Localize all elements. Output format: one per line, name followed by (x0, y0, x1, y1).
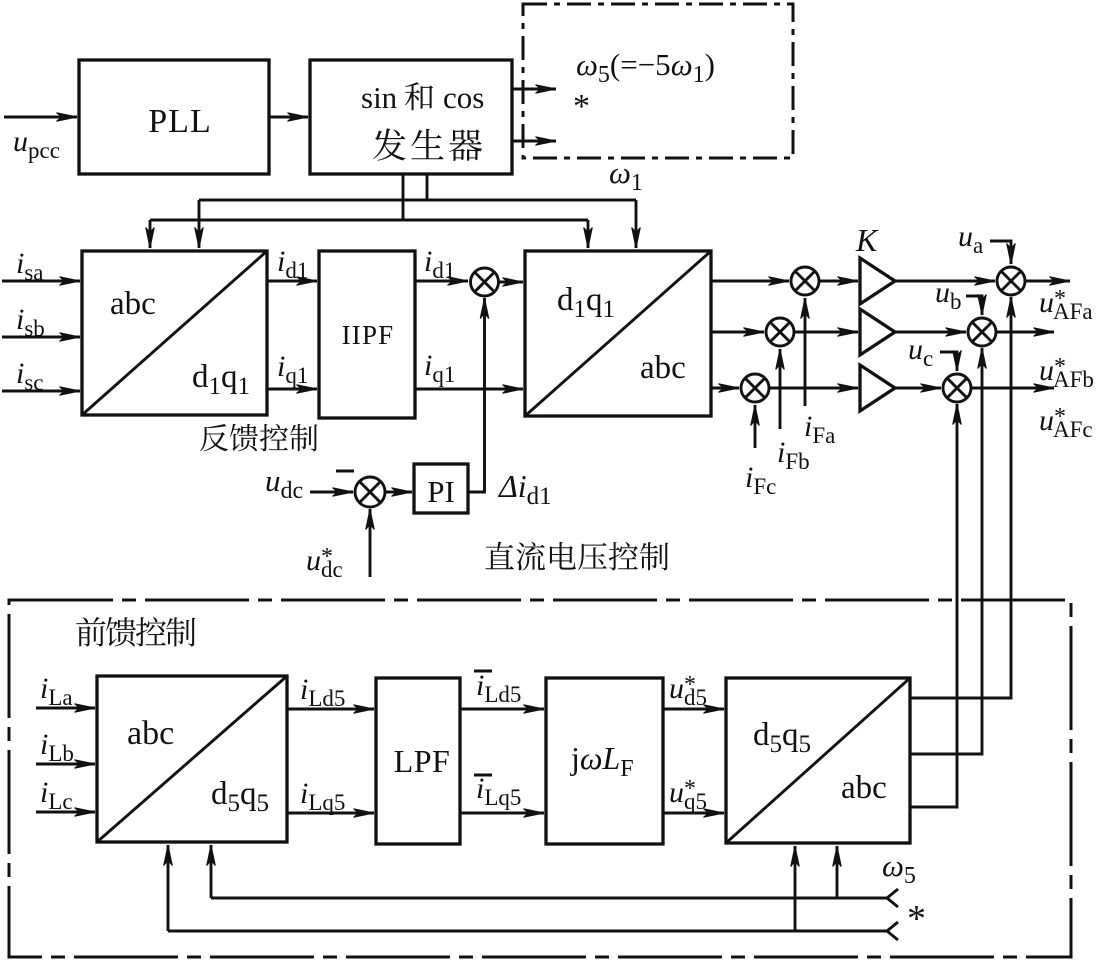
label feedforward control 前馈控制 (76, 617, 195, 646)
block LPF (376, 678, 460, 844)
diagonal abc-d1q1 (82, 251, 267, 415)
wire i_sc input (2, 390, 80, 393)
block abc to d5q5 transform (97, 676, 287, 842)
label feedback control 反馈控制 (200, 424, 317, 452)
block jwL_F (546, 678, 663, 844)
wire row-b to amp K (794, 331, 858, 334)
wire line B down into abc-d1q1 (149, 220, 152, 248)
block d1q1 to abc transform (525, 251, 711, 416)
wire amp to output summer row-a (895, 280, 995, 283)
wire feedforward phase-b up into output summer row-b (910, 348, 982, 754)
svg-text:abc: abc (640, 350, 686, 386)
svg-text:PI: PI (427, 474, 455, 509)
wire i_q1 to d1q1-abc (415, 388, 523, 391)
amplifier K row-b (860, 309, 895, 355)
wire i_sb input (2, 336, 80, 339)
wire u_dc into summer (310, 491, 353, 494)
wire i_q1 to HPF (267, 388, 317, 391)
svg-text:PLL: PLL (148, 103, 211, 140)
wire star up into d5q5-abc (794, 846, 797, 931)
wire summer to PI (385, 491, 412, 494)
amplifier K row-a (860, 258, 895, 304)
wire omega1 down into d1q1-abc (635, 200, 638, 248)
wire bus line B lower (150, 219, 588, 222)
svg-text:LPF: LPF (394, 743, 451, 779)
terminal fork omega5 (887, 889, 898, 907)
wire line B down into d1q1-abc (587, 220, 590, 248)
wire i_Fc into multiplier row-c (754, 405, 757, 448)
wire row-c to amp K (769, 387, 858, 390)
wire cos output into omega5 box (512, 140, 556, 143)
label dc voltage control 直流电压控制 (485, 542, 668, 571)
wire i_Lc input (36, 811, 95, 814)
amplifier K row-c (860, 365, 895, 411)
wire i_Fb into multiplier row-b (779, 349, 782, 429)
wire row-a to amp K (819, 280, 858, 283)
overbar i_Ld5 (474, 670, 492, 673)
wire i_La input (36, 707, 95, 710)
wire u*_d5 to d5q5-abc (663, 708, 724, 711)
block sin-cos generator (310, 60, 512, 174)
wire PI output up to summer (468, 298, 485, 492)
block PLL (79, 60, 269, 174)
wire ibar_Ld5 to jwL (460, 708, 544, 711)
overbar i_Lq5 (474, 774, 492, 777)
svg-text:sin: sin (361, 80, 398, 115)
wire line A down into abc-d1q1 (198, 200, 201, 248)
wire star bus (168, 930, 887, 933)
wire row-b to multiplier (711, 331, 764, 334)
wire row-c to multiplier (711, 387, 739, 390)
wire i_d1 to HPF (267, 280, 317, 283)
wire omega5 up into d5q5-abc (836, 846, 839, 898)
multiplier row-b (766, 318, 794, 346)
diagonal d5q5-abc (726, 678, 910, 843)
wire u_b into output summer row-b (966, 296, 982, 315)
wire feedforward phase-a up into output summer row-a (910, 297, 1011, 698)
wire u*_dc up into summer (369, 509, 372, 577)
wire bus line A upper (199, 199, 636, 202)
diagonal abc-d5q5 (97, 676, 287, 842)
wire ibar_Lq5 to jwL (460, 812, 544, 815)
wire amp to output summer row-c (895, 387, 941, 390)
multiplier row-a (791, 267, 819, 295)
dash-dot box feedforward control (9, 600, 1071, 957)
svg-text:K: K (855, 222, 879, 258)
output summer row-b (968, 318, 996, 346)
label 发生器 (373, 128, 482, 161)
block d5q5 to abc transform (726, 678, 910, 843)
wire i_Lq5 to LPF (287, 812, 374, 815)
wire star up into abc-d5q5 (167, 845, 170, 931)
wire u_c into output summer row-c (940, 352, 957, 371)
terminal fork star (887, 922, 898, 940)
wire u_a into output summer row-a (990, 241, 1011, 264)
svg-text:abc: abc (110, 286, 156, 322)
wire i_Fa into multiplier row-a (804, 298, 807, 406)
wire u*_AFa output (1025, 280, 1070, 283)
wire sincos bottom left vertical (402, 174, 405, 220)
summer u_dc (355, 477, 385, 507)
diagonal d1q1-abc (525, 251, 711, 416)
multiplier row-c (741, 374, 769, 402)
wire row-a to multiplier (711, 280, 789, 283)
output summer row-a (997, 267, 1025, 295)
svg-text:IIPF: IIPF (342, 320, 395, 350)
wire feedforward phase-c up into output summer row-c (910, 404, 957, 807)
minus sign at summer (336, 470, 354, 473)
wire u*_AFc output (971, 387, 1054, 390)
wire i_d1 to summer (415, 280, 468, 283)
dash-dot box omega5 reference (523, 4, 793, 158)
output summer row-c (943, 374, 971, 402)
wire i_Ld5 to LPF (287, 708, 374, 711)
svg-text:*: * (907, 898, 926, 940)
wire omega5 bus (211, 897, 887, 900)
wire u*_q5 to d5q5-abc (663, 812, 724, 815)
svg-text:abc: abc (841, 770, 887, 806)
wire omega5 up into abc-d5q5 (210, 845, 213, 898)
svg-text:cos: cos (443, 80, 484, 115)
svg-text:*: * (573, 88, 590, 125)
label 和 (405, 82, 433, 110)
wire u_pcc input arrow (4, 116, 77, 119)
wire summer to d1q1-abc (499, 281, 524, 284)
wire PLL to sin-cos generator (269, 116, 308, 119)
block PI (414, 464, 468, 513)
wire amp to output summer row-b (895, 331, 966, 334)
block abc to d1q1 transform (82, 251, 267, 415)
summer after HPF (471, 268, 499, 296)
svg-text:abc: abc (127, 715, 174, 752)
wire i_Lb input (36, 763, 95, 766)
wire sincos bottom right vertical (426, 174, 429, 200)
block HPF (319, 251, 415, 418)
wire u*_AFb output (996, 331, 1054, 334)
wire sin output into omega5 box (512, 88, 556, 91)
wire i_sa input (2, 280, 80, 283)
